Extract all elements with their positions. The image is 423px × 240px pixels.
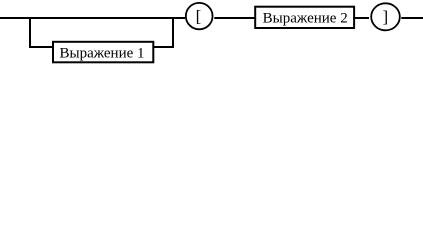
- wire: circle2 to right edge: [401, 17, 423, 19]
- svg-text:]: ]: [382, 7, 388, 26]
- wire: loop bottom horizontal into box1: [29, 46, 53, 48]
- railroad syntax diagram: [0, 0, 423, 65]
- svg-text:Выражение 2: Выражение 2: [263, 10, 348, 26]
- svg-text:[: [: [196, 7, 202, 26]
- wire: box1 right connector: [154, 46, 174, 48]
- wire: circle1 to box2: [214, 17, 255, 19]
- box: Выражение 2: [255, 7, 354, 28]
- wire: box2 to circle2: [355, 17, 369, 19]
- wire: return vertical up to main line: [172, 17, 174, 48]
- wire: branch vertical down: [29, 17, 31, 48]
- wire: main line left segment: [0, 17, 185, 19]
- circle: open bracket terminal: [186, 3, 213, 29]
- circle: close bracket terminal: [371, 3, 400, 30]
- svg-text:Выражение 1: Выражение 1: [59, 45, 144, 61]
- box: Выражение 1: [53, 42, 153, 63]
